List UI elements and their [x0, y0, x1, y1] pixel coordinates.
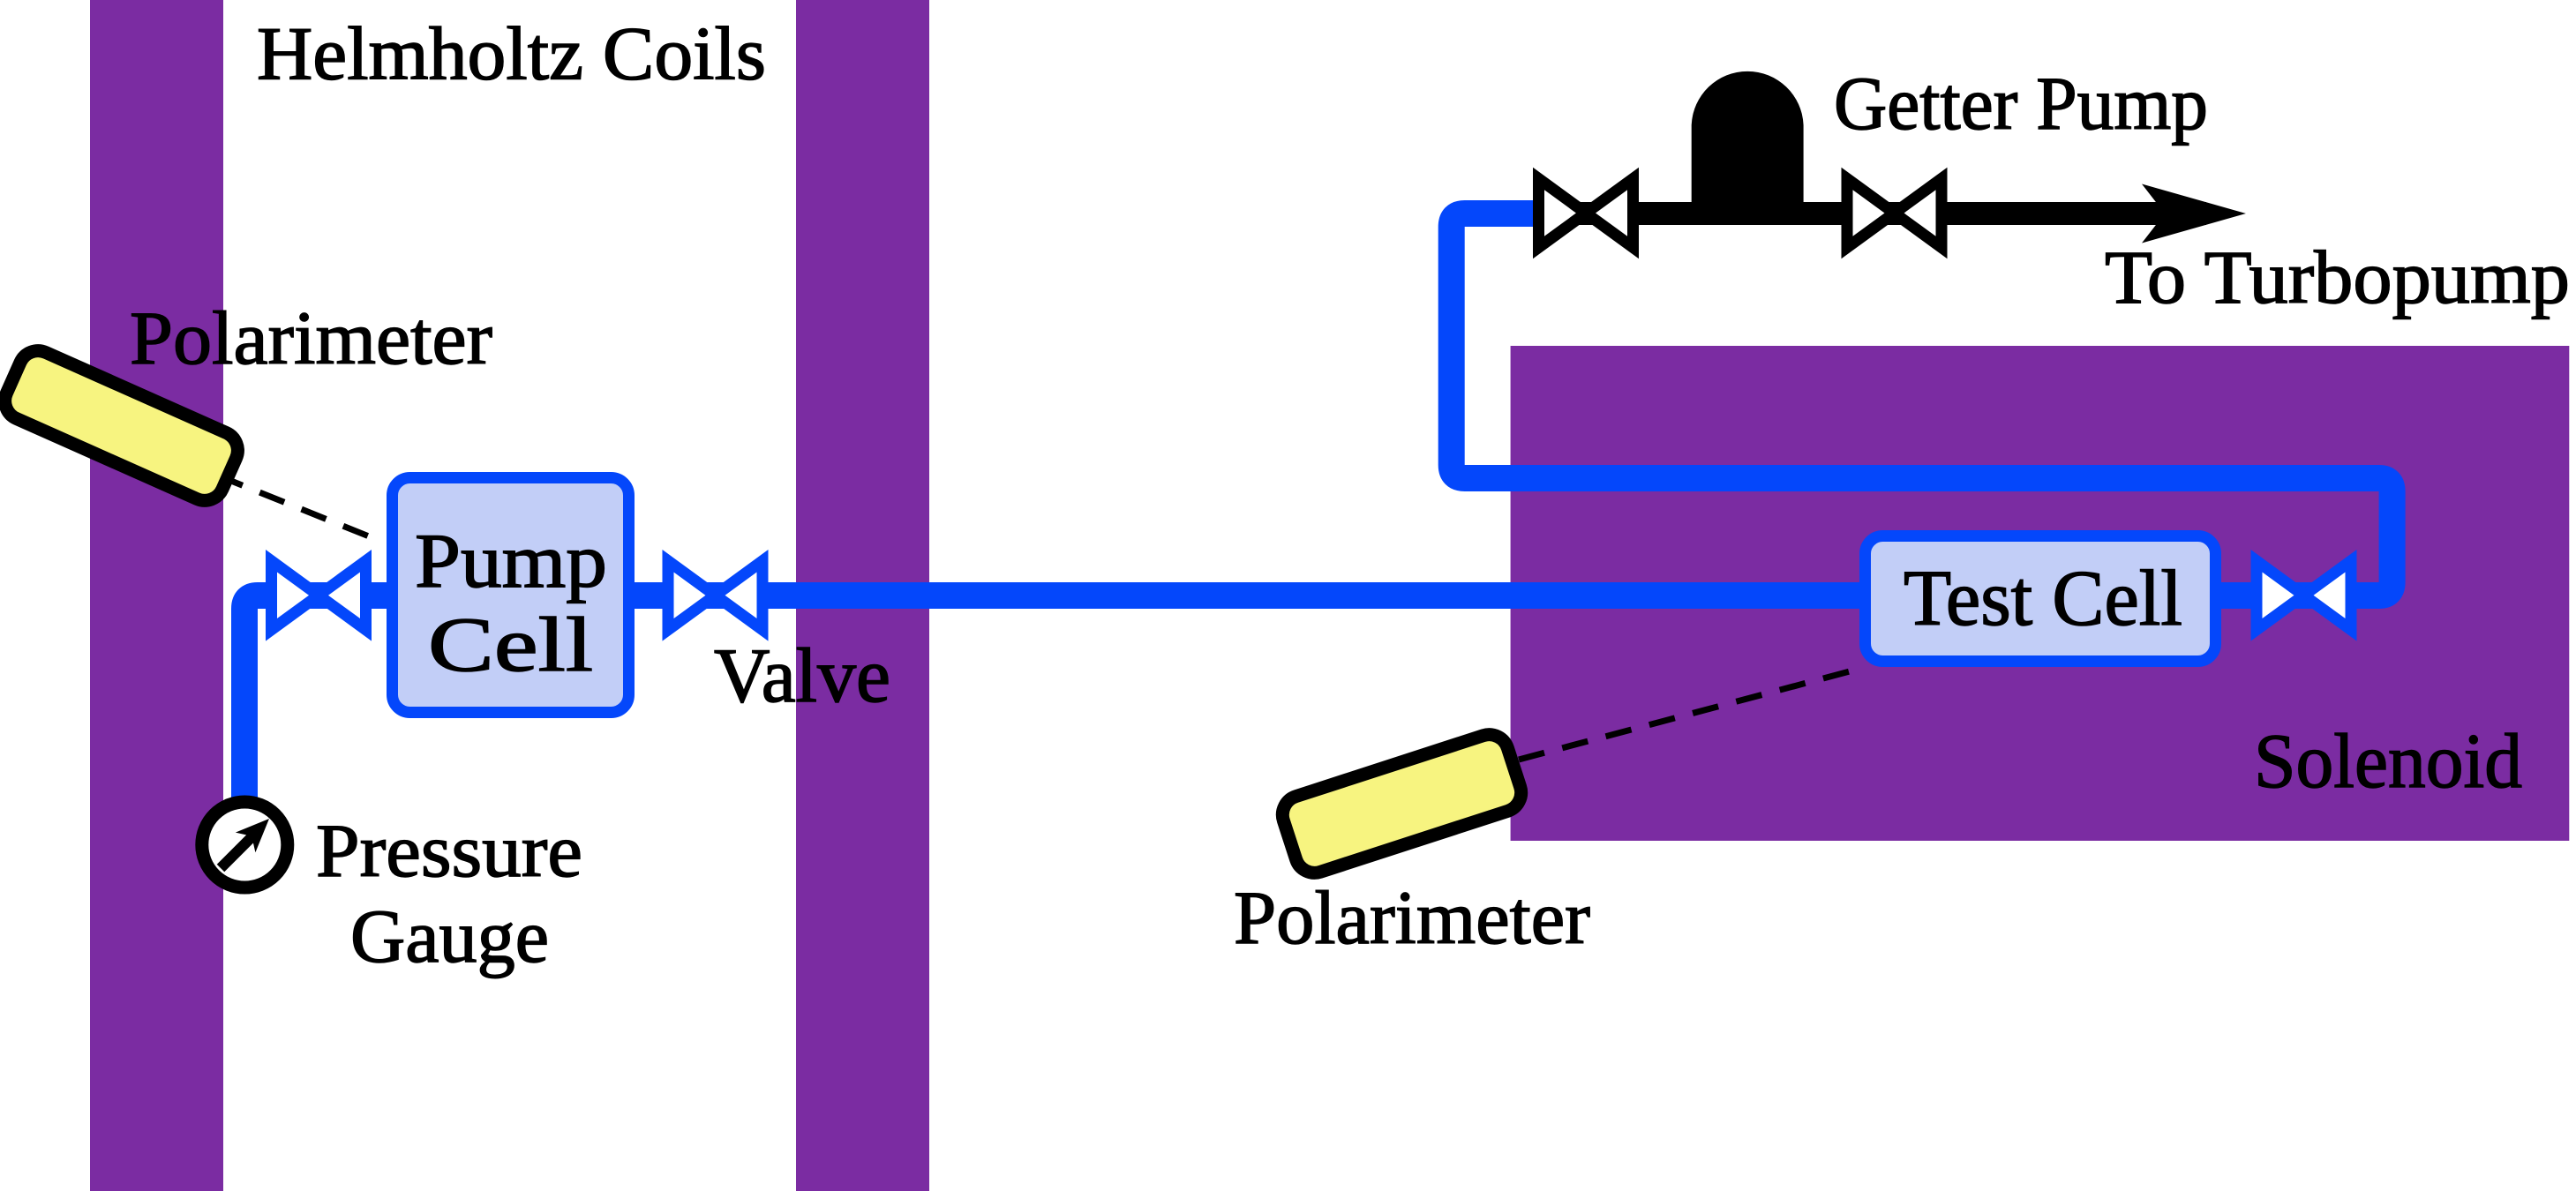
- svg-text:To Turbopump: To Turbopump: [2105, 235, 2570, 319]
- test cell: [1866, 536, 2216, 662]
- polarimeter 1: [0, 345, 244, 507]
- valve V1 (left of pump cell): [272, 561, 366, 630]
- svg-text:Getter Pump: Getter Pump: [1834, 61, 2208, 146]
- svg-text:Polarimeter: Polarimeter: [1234, 875, 1590, 960]
- pressure gauge: [202, 802, 288, 888]
- dashed sight line 2: [1519, 668, 1863, 760]
- Helmholtz coil bar left: [90, 0, 223, 1191]
- solenoid body: [1511, 346, 2570, 841]
- svg-text:Solenoid: Solenoid: [2254, 719, 2522, 805]
- svg-text:Cell: Cell: [428, 603, 593, 688]
- gauge needle: [221, 819, 269, 868]
- svg-text:Gauge: Gauge: [350, 894, 549, 978]
- getter pump dome: [1692, 71, 1804, 213]
- polarimeter 2: [1278, 730, 1527, 878]
- black valve V5 (right of getter pump): [1847, 179, 1941, 248]
- svg-text:Valve: Valve: [714, 633, 890, 719]
- svg-text:Test Cell: Test Cell: [1904, 555, 2182, 642]
- arrowhead to turbopump: [2142, 184, 2246, 243]
- svg-text:Pressure: Pressure: [316, 808, 582, 893]
- Helmholtz coil bar right: [796, 0, 929, 1191]
- svg-text:Helmholtz Coils: Helmholtz Coils: [257, 11, 766, 95]
- wire: blue pipe network: [244, 213, 2392, 801]
- dashed sight line 1: [218, 476, 382, 542]
- svg-text:Pump: Pump: [415, 519, 607, 604]
- valve V3 (right of test cell): [2257, 561, 2351, 630]
- getter pump line (black): [1553, 202, 2206, 225]
- valve V2 (right of pump cell): [668, 561, 762, 630]
- svg-text:Polarimeter: Polarimeter: [130, 296, 492, 380]
- black valve V4 (left of getter pump): [1539, 179, 1633, 248]
- pump cell: [393, 478, 629, 713]
